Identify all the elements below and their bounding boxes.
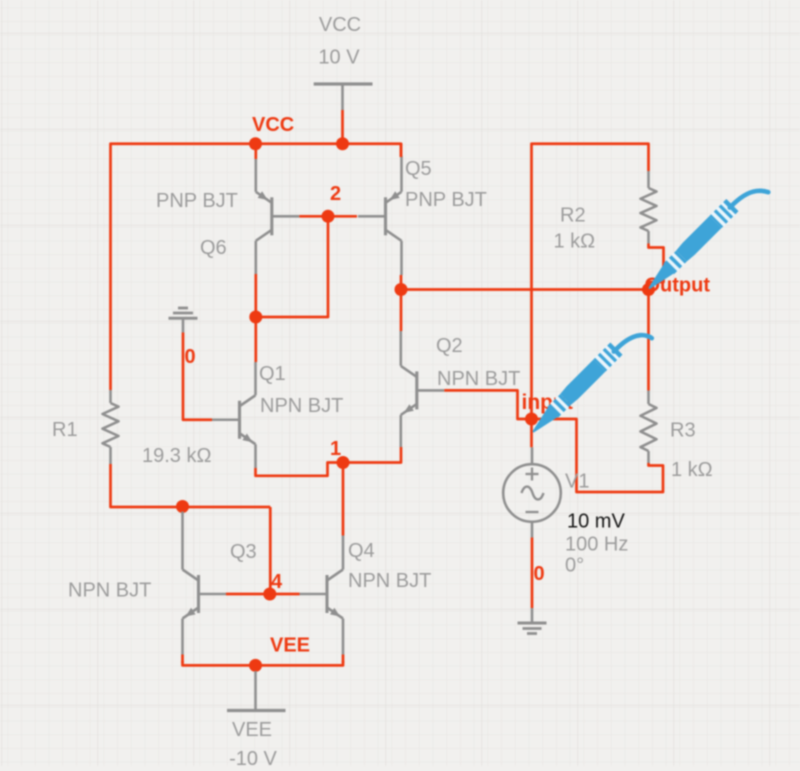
label node 1 (330, 438, 341, 460)
wire ground to Q1 base (183, 333, 212, 420)
transistor Q1 (NPN) (212, 363, 343, 444)
wire Q6 emitter stub (254, 146, 257, 159)
svg-text:Q6: Q6 (200, 237, 227, 259)
Q6 emitter lead (255, 159, 258, 192)
label node 4 (271, 571, 283, 593)
svg-text:1 kΩ: 1 kΩ (671, 459, 713, 481)
junction node 1 (337, 456, 350, 469)
wire input node up and over to R2 (532, 144, 649, 419)
svg-text:10 V: 10 V (318, 47, 360, 69)
svg-text:VEE: VEE (270, 635, 310, 657)
Q3 collector lead (181, 512, 184, 570)
transistor Q4 (NPN) (300, 540, 432, 619)
label node 2 (330, 183, 341, 205)
svg-text:0: 0 (534, 563, 545, 585)
svg-text:V1: V1 (565, 471, 589, 493)
svg-text:Q5: Q5 (405, 158, 432, 180)
svg-text:R3: R3 (670, 420, 696, 442)
junction on VCC rail at Q6 emitter (249, 137, 262, 150)
wire Q2 collector (400, 290, 403, 332)
junction output node (642, 283, 655, 296)
transistor Q5 (PNP) (358, 158, 487, 241)
oscilloscope probe at Output (642, 191, 768, 295)
wire Q5 collector to output node (400, 275, 403, 290)
Q2 collector lead (399, 331, 402, 366)
junction at Q5/Q2 collectors (395, 283, 408, 296)
ground symbol below V1 (518, 608, 547, 634)
svg-text:19.3 kΩ: 19.3 kΩ (142, 445, 211, 467)
transistor Q3 (NPN) (68, 541, 257, 619)
svg-text:0: 0 (185, 346, 196, 368)
wire VCC supply to rail (341, 110, 344, 144)
wire Q4 emitter to VEE rail (342, 655, 345, 664)
svg-text:VCC: VCC (319, 14, 361, 36)
svg-text:VCC: VCC (252, 114, 294, 136)
wire V1 to ground (531, 538, 534, 609)
voltage source V1 (503, 447, 628, 576)
wire node 4 between bases (226, 593, 300, 596)
resistor R3 (641, 391, 713, 482)
svg-text:Q3: Q3 (230, 541, 257, 563)
svg-text:NPN BJT: NPN BJT (437, 368, 520, 390)
ground symbol node 0 (169, 308, 198, 333)
Q3 emitter lead (181, 619, 184, 655)
svg-text:NPN BJT: NPN BJT (68, 580, 151, 602)
Q1 emitter lead (254, 444, 257, 468)
VCC supply symbol (314, 14, 373, 110)
label node 0 left (185, 346, 196, 368)
wire node 2 between bases (299, 215, 357, 218)
svg-text:Q2: Q2 (436, 335, 463, 357)
svg-text:1 kΩ: 1 kΩ (554, 231, 596, 253)
wire VEE rail (183, 661, 344, 665)
junction node at R1/Q3 collector (176, 500, 189, 513)
wire input node to V1 (530, 419, 533, 447)
resistor R2 (554, 171, 657, 253)
Q6 collector lead (255, 241, 258, 274)
oscilloscope probe at input (526, 335, 651, 438)
wire Q1 collector (254, 317, 257, 362)
wire node 1 down to Q4 collector (342, 463, 345, 536)
wire Q1 emitter to node 1 (256, 463, 344, 476)
wire R1 bottom to Q3 collector row (111, 464, 271, 507)
svg-text:R1: R1 (52, 419, 78, 441)
svg-text:100 Hz: 100 Hz (565, 534, 628, 556)
svg-text:1: 1 (330, 438, 341, 460)
svg-text:R2: R2 (560, 205, 586, 227)
wire Q6 collector to node (254, 274, 257, 317)
Q5 collector lead (400, 241, 403, 275)
wire Q2 base to input node (444, 390, 531, 419)
Q1 collector lead (254, 362, 257, 395)
wire output horizontal (401, 288, 649, 291)
label VCC net (252, 114, 294, 136)
svg-text:10 mV: 10 mV (567, 511, 625, 533)
junction VEE rail (249, 659, 262, 672)
label node 0 bottom (534, 563, 545, 585)
junction on VCC rail at supply (336, 137, 349, 150)
wire Q2 emitter to node 1 (343, 447, 401, 463)
VEE supply symbol (227, 671, 286, 770)
svg-text:NPN BJT: NPN BJT (260, 395, 343, 417)
junction input node (525, 413, 538, 426)
wire node 2 down to Q6 collector (256, 216, 328, 317)
junction at Q6 collector (249, 311, 262, 324)
svg-text:PNP BJT: PNP BJT (405, 189, 487, 211)
wire VCC rail (111, 144, 402, 390)
Q4 emitter lead (342, 619, 345, 655)
transistor Q2 (NPN) (401, 335, 521, 415)
junction node 4 (263, 588, 276, 601)
wire R2 bottom jog to output node (649, 244, 664, 290)
svg-text:VEE: VEE (232, 719, 272, 741)
label Output (645, 275, 711, 297)
svg-text:PNP BJT: PNP BJT (156, 190, 238, 212)
resistor R1 (52, 390, 211, 467)
svg-text:2: 2 (330, 183, 341, 205)
label input (522, 391, 573, 414)
transistor Q6 (PNP) (156, 190, 299, 259)
svg-text:0°: 0° (565, 555, 584, 577)
label VEE net (270, 635, 310, 657)
wire down to node 4 (269, 507, 272, 594)
svg-text:Q4: Q4 (348, 540, 375, 562)
svg-text:NPN BJT: NPN BJT (348, 570, 431, 592)
junction node 2 (322, 210, 335, 223)
wire R3 bottom loop to input node (532, 419, 664, 492)
Q5 emitter lead (400, 156, 403, 192)
wire Q5 emitter stub (400, 143, 403, 157)
Q4 collector lead (342, 536, 345, 570)
svg-text:Q1: Q1 (259, 363, 286, 385)
wire Q3 collector stub (181, 505, 184, 512)
wire Q3 emitter to VEE rail (181, 655, 184, 664)
Q2 emitter lead (399, 415, 402, 447)
svg-text:-10 V: -10 V (229, 748, 277, 766)
wire output down to R3 (647, 290, 650, 391)
